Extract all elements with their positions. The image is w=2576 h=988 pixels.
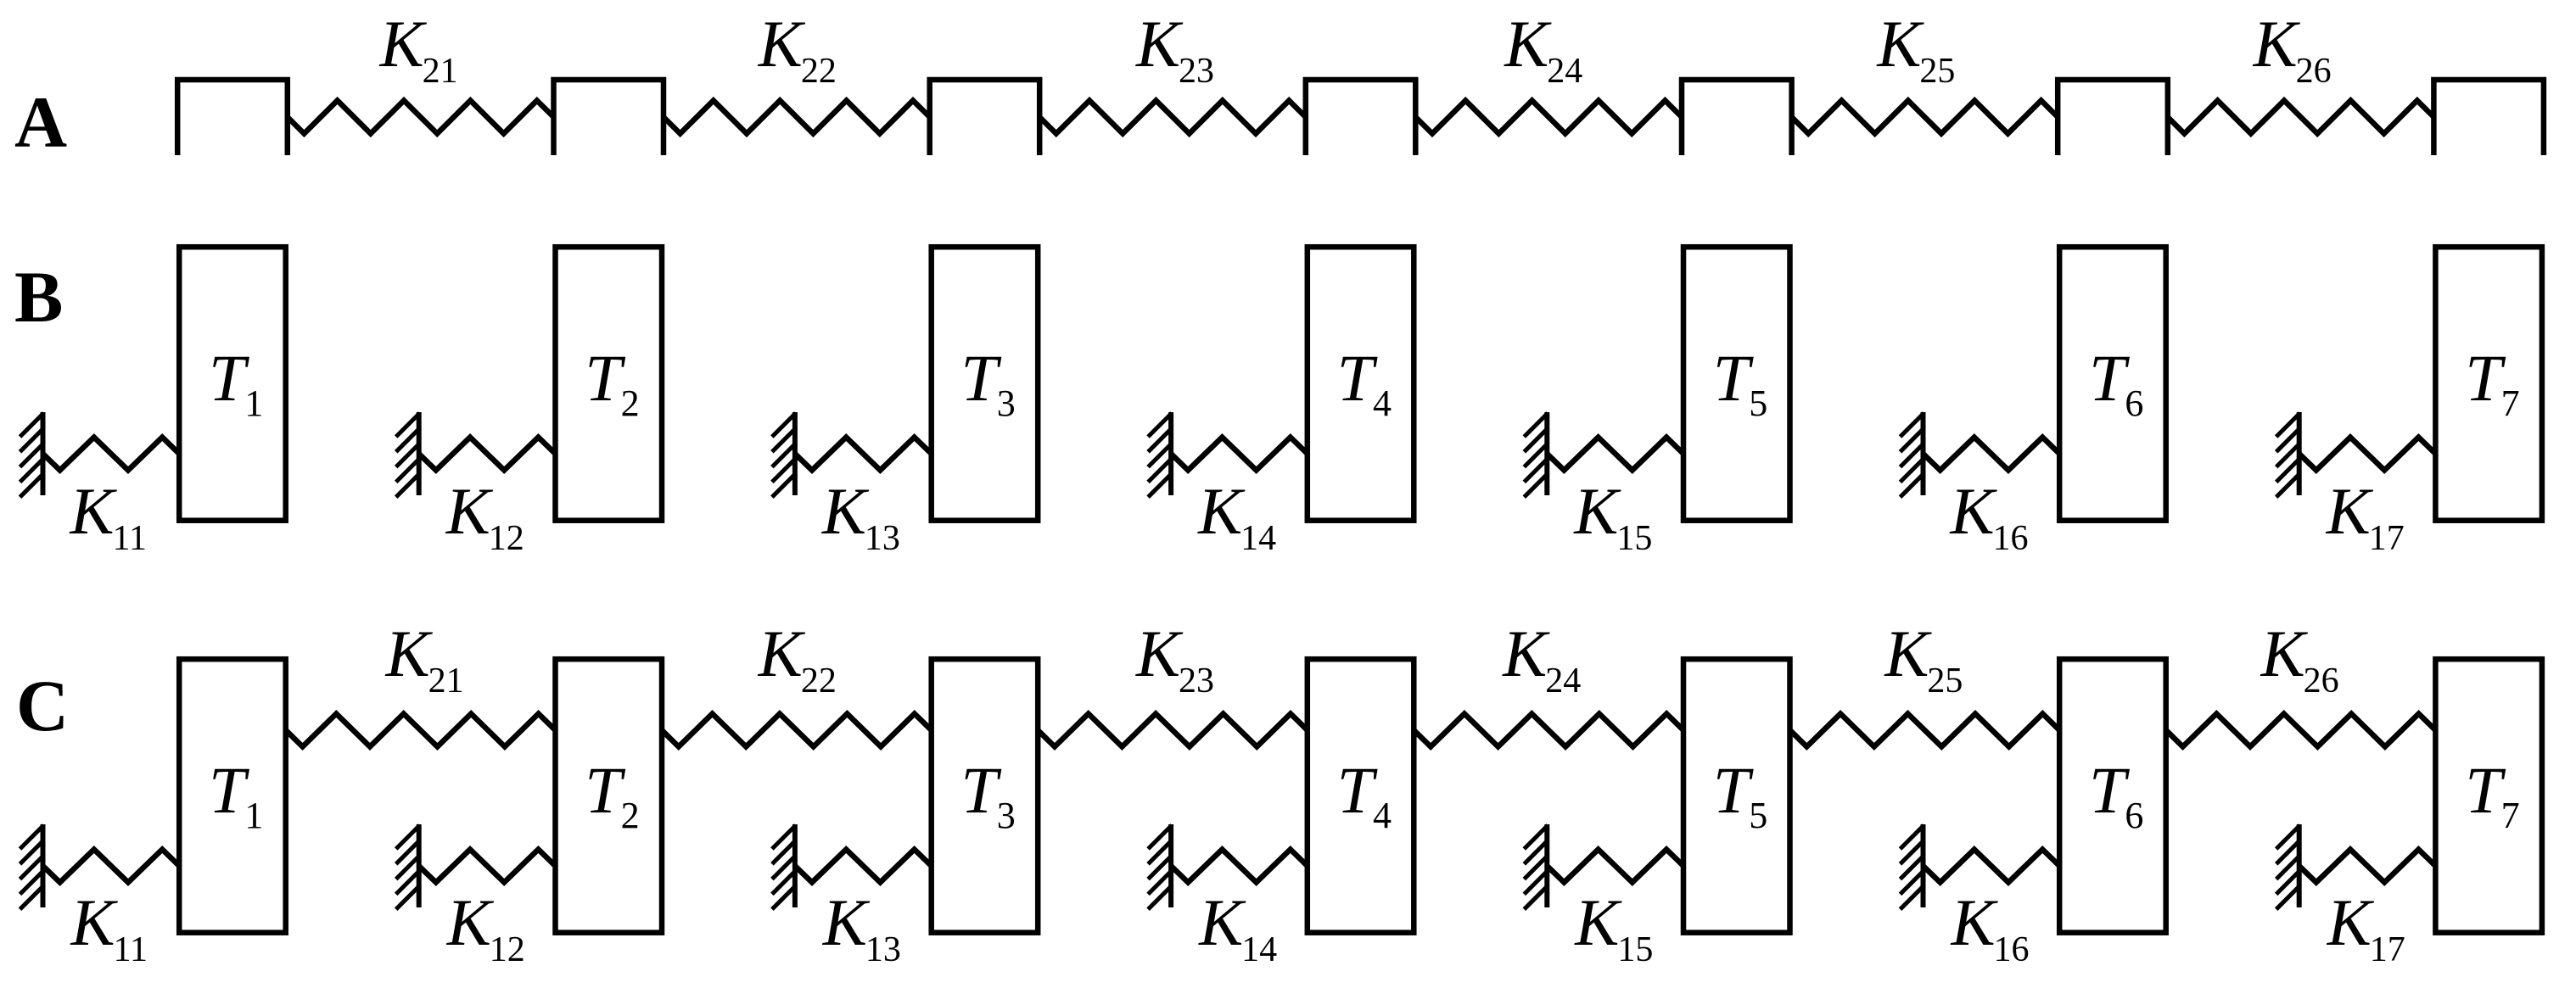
wall anchor 7 row B [2297, 412, 2302, 495]
spring K15 row C [1547, 850, 1683, 883]
spring K17 row B [2299, 438, 2436, 471]
mass T6 row C [2059, 659, 2166, 932]
mass T7 row C [2435, 659, 2542, 932]
row A cart bracket 4 [1306, 80, 1416, 155]
wall anchor 3 row C [792, 824, 798, 907]
wall anchor 6 row C [1921, 824, 1926, 907]
spring K26 row A [2168, 101, 2434, 134]
mass T4 row C [1308, 659, 1414, 932]
spring K22 row C [662, 714, 932, 747]
row A cart bracket 5 [1682, 80, 1792, 155]
mass T4 row B [1308, 247, 1414, 521]
wall anchor 1 row B [41, 412, 46, 495]
spring K22 row A [664, 101, 930, 134]
spring K23 row C [1038, 714, 1308, 747]
wall anchor 1 row C [41, 824, 46, 907]
wall anchor 5 row B [1544, 412, 1549, 495]
row A cart bracket 3 [930, 80, 1040, 155]
mass T2 row C [556, 659, 663, 932]
mass T6 row B [2059, 247, 2166, 521]
wall anchor 4 row C [1168, 824, 1173, 907]
spring K26 row C [2166, 714, 2436, 747]
mass T7 row B [2435, 247, 2542, 521]
spring K13 row B [795, 438, 932, 471]
mass T5 row C [1683, 659, 1790, 932]
spring K12 row C [419, 850, 556, 883]
spring K25 row C [1790, 714, 2060, 747]
wall anchor 4 row B [1168, 412, 1173, 495]
spring K11 row C [43, 850, 180, 883]
spring K21 row C [286, 714, 556, 747]
spring K16 row C [1924, 850, 2060, 883]
spring K21 row A [288, 101, 554, 134]
spring K13 row C [795, 850, 932, 883]
row A cart bracket 6 [2058, 80, 2168, 155]
spring K23 row A [1039, 101, 1306, 134]
row A cart bracket 1 [177, 80, 288, 155]
svg-text:A: A [14, 81, 67, 163]
spring K15 row B [1547, 438, 1683, 471]
spring K24 row C [1414, 714, 1683, 747]
mass T5 row B [1683, 247, 1790, 521]
row A cart bracket 7 [2433, 80, 2544, 155]
svg-text:C: C [16, 665, 69, 746]
svg-text:B: B [14, 256, 63, 338]
spring K14 row B [1171, 438, 1308, 471]
spring K24 row A [1415, 101, 1682, 134]
spring K25 row A [1792, 101, 2058, 134]
wall anchor 5 row C [1544, 824, 1549, 907]
spring K14 row C [1171, 850, 1308, 883]
mass T3 row C [932, 659, 1039, 932]
row A cart bracket 2 [554, 80, 664, 155]
spring K16 row B [1924, 438, 2060, 471]
wall anchor 7 row C [2297, 824, 2302, 907]
mass T2 row B [556, 247, 663, 521]
spring K17 row C [2299, 850, 2436, 883]
spring K12 row B [419, 438, 556, 471]
mass T3 row B [932, 247, 1039, 521]
wall anchor 6 row B [1921, 412, 1926, 495]
wall anchor 3 row B [792, 412, 798, 495]
mass T1 row B [179, 247, 286, 521]
wall anchor 2 row C [417, 824, 422, 907]
mass T1 row C [179, 659, 286, 932]
spring K11 row B [43, 438, 180, 471]
wall anchor 2 row B [417, 412, 422, 495]
